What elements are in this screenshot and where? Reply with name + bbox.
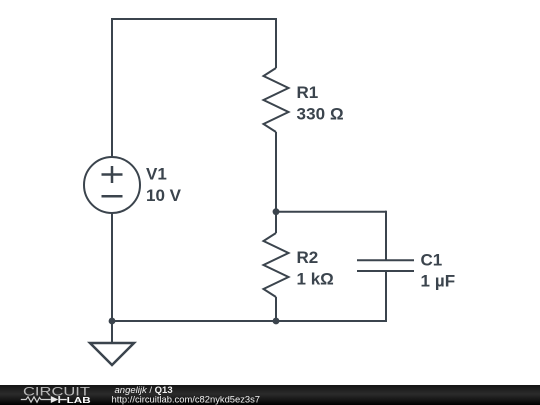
resistor R1 (264, 68, 289, 132)
wire: left vertical lower (V1 to ground node) (111, 213, 113, 322)
node: bottom rail / R2 junction dot (273, 318, 280, 325)
svg-text:1 µF: 1 µF (421, 272, 456, 291)
capacitor C1 top plate (357, 259, 414, 261)
ground (90, 343, 134, 365)
capacitor C1 bottom plate (357, 270, 414, 272)
wire: node A to R2 (275, 212, 277, 233)
wire: left vertical upper (top rail to V1) (111, 18, 113, 157)
svg-text:R2: R2 (297, 248, 319, 267)
svg-text:330 Ω: 330 Ω (297, 105, 344, 124)
wire: right vertical (top rail to R1) (275, 18, 277, 68)
node A junction dot (273, 208, 280, 215)
resistor R2 (264, 233, 289, 297)
voltage source V1 (84, 157, 140, 213)
wire: C1 branch vertical lower (385, 271, 387, 322)
node: ground junction dot (109, 318, 116, 325)
logo resistor zigzag (21, 397, 51, 402)
wire: bottom rail (111, 320, 387, 322)
svg-text:10 V: 10 V (146, 186, 182, 205)
svg-text:1 kΩ: 1 kΩ (297, 270, 334, 289)
svg-text:C1: C1 (421, 251, 443, 270)
logo diode (51, 396, 67, 403)
svg-text:http://circuitlab.com/c82nykd5: http://circuitlab.com/c82nykd5ez3s7 (112, 394, 261, 405)
svg-text:V1: V1 (146, 165, 167, 184)
wire: C1 branch vertical upper (385, 211, 387, 261)
wire: ground stem (111, 321, 113, 343)
wire: top rail (111, 18, 277, 20)
wire: R1 to node A (275, 132, 277, 212)
svg-text:LAB: LAB (67, 395, 91, 405)
wire: node A to C1 branch horizontal (276, 211, 386, 213)
wire: R2 to bottom rail (275, 297, 277, 322)
svg-text:R1: R1 (297, 83, 319, 102)
